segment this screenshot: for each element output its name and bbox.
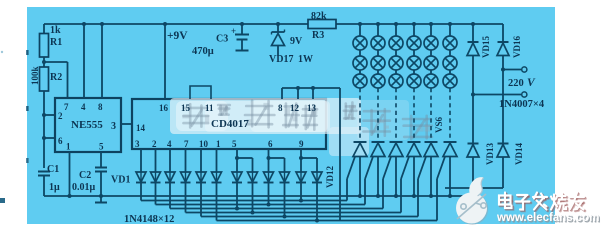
svg-text:C2: C2 xyxy=(79,170,91,181)
svg-text:1N4148×12: 1N4148×12 xyxy=(124,214,174,225)
svg-text:NE555: NE555 xyxy=(71,119,103,131)
svg-text:1N4007×4: 1N4007×4 xyxy=(499,99,545,110)
svg-text:1: 1 xyxy=(66,142,71,152)
svg-text:+9V: +9V xyxy=(167,30,188,42)
svg-text:1μ: 1μ xyxy=(49,182,60,193)
svg-text:470μ: 470μ xyxy=(192,46,214,57)
svg-text:VD13: VD13 xyxy=(485,143,495,165)
svg-text:3: 3 xyxy=(111,121,116,132)
svg-text:1W: 1W xyxy=(298,54,313,65)
svg-text:VS6: VS6 xyxy=(434,116,444,133)
svg-text:10: 10 xyxy=(199,139,209,149)
svg-text:1k: 1k xyxy=(50,25,61,36)
svg-text:VD14: VD14 xyxy=(514,143,524,165)
svg-text:2: 2 xyxy=(58,111,63,121)
svg-text:V: V xyxy=(527,77,536,89)
svg-text:VD15: VD15 xyxy=(481,36,491,58)
svg-text:220: 220 xyxy=(508,78,524,89)
svg-text:6: 6 xyxy=(268,139,273,149)
svg-text:82k: 82k xyxy=(311,11,327,22)
svg-text:4: 4 xyxy=(81,102,86,112)
svg-text:9V: 9V xyxy=(290,36,303,47)
svg-text:13: 13 xyxy=(307,103,317,113)
svg-text:100k: 100k xyxy=(30,66,40,85)
svg-text:5: 5 xyxy=(232,139,237,149)
svg-text:0.01μ: 0.01μ xyxy=(72,182,96,193)
svg-text:7: 7 xyxy=(64,102,69,112)
svg-text:VD17: VD17 xyxy=(269,54,293,65)
svg-text:8: 8 xyxy=(278,103,283,113)
svg-text:R2: R2 xyxy=(50,72,62,83)
svg-text:12: 12 xyxy=(290,103,300,113)
svg-text:VD1: VD1 xyxy=(111,175,130,186)
svg-text:15: 15 xyxy=(181,103,191,113)
svg-text:9: 9 xyxy=(299,139,304,149)
svg-text:7: 7 xyxy=(184,139,189,149)
svg-text:R3: R3 xyxy=(312,30,324,41)
svg-text:R1: R1 xyxy=(50,37,62,48)
svg-text:1: 1 xyxy=(216,139,221,149)
svg-text:11: 11 xyxy=(205,103,214,113)
svg-text:16: 16 xyxy=(159,103,169,113)
svg-text:VD16: VD16 xyxy=(512,36,522,58)
svg-text:14: 14 xyxy=(136,123,146,133)
svg-text:CD4017: CD4017 xyxy=(211,118,249,130)
svg-text:3: 3 xyxy=(135,139,140,149)
svg-text:4: 4 xyxy=(167,139,172,149)
svg-text:VD12: VD12 xyxy=(325,166,335,188)
svg-text:8: 8 xyxy=(98,102,103,112)
svg-text:6: 6 xyxy=(58,136,63,146)
svg-text:C1: C1 xyxy=(47,164,59,175)
svg-text:www.elecfans.com: www.elecfans.com xyxy=(496,212,599,224)
svg-text:2: 2 xyxy=(152,139,157,149)
svg-text:5: 5 xyxy=(99,142,104,152)
svg-text:C3: C3 xyxy=(216,34,228,45)
svg-text:+: + xyxy=(231,26,236,36)
